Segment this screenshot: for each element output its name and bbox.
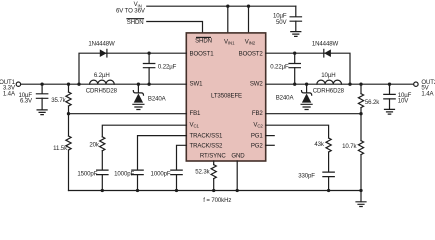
wire OUT1 to SW1 bbox=[21, 83, 187, 85]
svg-text:B240A: B240A bbox=[276, 95, 295, 102]
junction FB1 node bbox=[67, 112, 70, 115]
capacitor C5 1000pF bbox=[114, 170, 143, 190]
svg-text:0.22µF: 0.22µF bbox=[270, 64, 289, 71]
resistor R3 20k bbox=[89, 137, 105, 170]
junction rail right end bbox=[359, 189, 362, 192]
svg-text:B240A: B240A bbox=[148, 95, 167, 102]
pin VC1 bbox=[190, 121, 200, 128]
op-amp U1 LT3508EFE body bbox=[186, 33, 265, 161]
svg-text:52.3k: 52.3k bbox=[195, 169, 210, 176]
wire TRACK/SS2 bbox=[177, 145, 187, 169]
wire TRACK/SS1 bbox=[138, 136, 187, 170]
junction C3 top bbox=[147, 52, 150, 55]
svg-text:6.3V: 6.3V bbox=[20, 97, 33, 104]
pin SW1 bbox=[190, 81, 204, 88]
pin FB1 bbox=[190, 110, 202, 117]
svg-text:FB2: FB2 bbox=[252, 110, 264, 117]
svg-text:SHDN: SHDN bbox=[127, 19, 144, 26]
capacitor C3 0.22uF boost1 bbox=[143, 53, 176, 84]
svg-text:TRACK/SS2: TRACK/SS2 bbox=[190, 142, 224, 149]
wire VIN2 pin bbox=[248, 6, 250, 33]
pin BOOST1 bbox=[190, 50, 215, 57]
capacitor 10uF 50V input bbox=[273, 6, 302, 31]
svg-text:11.5k: 11.5k bbox=[53, 145, 68, 152]
pin GND bbox=[231, 152, 245, 159]
junction C2 bbox=[388, 83, 391, 86]
ground rail symbol bbox=[356, 191, 366, 207]
node SHDN label bbox=[127, 19, 144, 26]
wire GND pin bbox=[236, 161, 238, 191]
svg-text:330pF: 330pF bbox=[298, 173, 315, 180]
wire ground rail bbox=[69, 190, 362, 192]
diode D3 B240A catch left bbox=[133, 84, 166, 102]
svg-text:BOOST2: BOOST2 bbox=[239, 50, 264, 57]
svg-text:f = 700kHz: f = 700kHz bbox=[203, 197, 231, 204]
svg-text:SW2: SW2 bbox=[250, 81, 264, 88]
capacitor C1 10uF 6.3V bbox=[18, 84, 47, 109]
svg-text:1.4A: 1.4A bbox=[421, 91, 434, 98]
resistor R2 11.5k bbox=[53, 114, 71, 191]
resistor R4 52.3k RT bbox=[195, 161, 216, 191]
svg-text:6V TO 36V: 6V TO 36V bbox=[116, 7, 146, 14]
junction rail RT bbox=[212, 189, 215, 192]
resistor R6 10.7k bbox=[342, 114, 364, 191]
ground D3 bbox=[133, 104, 144, 109]
wire BOOST2 corner bbox=[266, 53, 350, 84]
wire VIN1 pin bbox=[227, 6, 229, 33]
junction rail 1500pF bbox=[101, 189, 104, 192]
svg-text:10V: 10V bbox=[398, 98, 410, 105]
svg-text:PG2: PG2 bbox=[251, 142, 264, 149]
pin SHDN bbox=[195, 37, 212, 44]
node VIN label bbox=[116, 1, 146, 14]
inductor L1 6.2uH bbox=[86, 72, 118, 95]
label f=700kHz bbox=[203, 197, 231, 204]
svg-text:SW1: SW1 bbox=[190, 81, 204, 88]
pin PG2 bbox=[251, 142, 264, 149]
svg-text:20k: 20k bbox=[89, 142, 100, 149]
svg-text:50V: 50V bbox=[276, 19, 288, 26]
ground input cap bbox=[291, 32, 301, 37]
wire VC2 bbox=[266, 125, 329, 138]
svg-text:CDRH6D28: CDRH6D28 bbox=[313, 88, 345, 95]
label LT3508EFE bbox=[211, 92, 242, 99]
svg-text:FB1: FB1 bbox=[190, 110, 202, 117]
junction boost2 corner bbox=[348, 83, 351, 86]
wire BOOST1 corner bbox=[79, 53, 186, 84]
junction D4 bbox=[305, 83, 308, 86]
pin FB2 bbox=[252, 110, 264, 117]
resistor R1 35.7k bbox=[51, 84, 71, 114]
capacitor C8 0.22uF boost2 bbox=[270, 53, 300, 84]
pin VIN1 bbox=[224, 38, 235, 45]
junction rail GND bbox=[236, 189, 239, 192]
junction rail 1000pF a bbox=[136, 189, 139, 192]
svg-text:43k: 43k bbox=[314, 141, 325, 148]
wire SHDN bbox=[147, 22, 203, 34]
svg-text:LT3508EFE: LT3508EFE bbox=[211, 92, 242, 99]
wire FB2 bbox=[266, 113, 361, 115]
svg-text:1000pF: 1000pF bbox=[114, 171, 134, 178]
svg-text:GND: GND bbox=[231, 152, 245, 159]
svg-text:0.22µF: 0.22µF bbox=[158, 64, 177, 71]
junction C1 bbox=[40, 83, 43, 86]
svg-text:10µH: 10µH bbox=[321, 72, 335, 79]
svg-text:6.2µH: 6.2µH bbox=[94, 72, 110, 79]
junction VIN1 bbox=[226, 5, 229, 8]
junction rail 330pF bbox=[327, 189, 330, 192]
junction VIN2 bbox=[247, 5, 250, 8]
junction R1 top bbox=[67, 83, 70, 86]
pin VIN2 bbox=[245, 38, 256, 45]
svg-text:10.7k: 10.7k bbox=[342, 143, 357, 150]
svg-text:1500pF: 1500pF bbox=[77, 171, 97, 178]
diode D2 1N4448W bbox=[312, 40, 339, 57]
pin PG1 bbox=[251, 133, 264, 140]
node OUT1 terminal bbox=[0, 79, 21, 98]
resistor R5 56.2k bbox=[358, 84, 380, 114]
wire PG2 stub bbox=[266, 144, 275, 146]
junction C8 bottom bbox=[293, 83, 296, 86]
diode D4 B240A catch right bbox=[276, 84, 312, 102]
svg-text:RT/SYNC: RT/SYNC bbox=[200, 152, 227, 159]
pin RT/SYNC bbox=[200, 152, 227, 159]
capacitor C9 330pF bbox=[298, 172, 334, 190]
capacitor C4 1500pF bbox=[77, 170, 108, 190]
svg-text:1000pF: 1000pF bbox=[151, 171, 171, 178]
ground D4 bbox=[301, 104, 312, 109]
wire PG1 stub bbox=[266, 135, 275, 137]
capacitor C2 10uF 10V bbox=[384, 84, 412, 109]
junction D3 bbox=[137, 83, 140, 86]
ground C2 bbox=[385, 109, 395, 114]
pin SW2 bbox=[250, 81, 264, 88]
svg-text:1.4A: 1.4A bbox=[3, 91, 16, 98]
svg-text:PG1: PG1 bbox=[251, 133, 264, 140]
svg-text:56.2k: 56.2k bbox=[365, 99, 380, 106]
resistor R7 43k bbox=[314, 138, 331, 172]
wire VC1 bbox=[102, 125, 186, 137]
pin TRACK/SS2 bbox=[190, 142, 224, 149]
pin BOOST2 bbox=[239, 50, 264, 57]
inductor L2 10uH bbox=[313, 72, 345, 95]
junction boost1 corner bbox=[77, 83, 80, 86]
junction C8 top bbox=[293, 52, 296, 55]
svg-text:1N4448W: 1N4448W bbox=[312, 40, 339, 47]
svg-text:1N4448W: 1N4448W bbox=[88, 40, 115, 47]
junction FB2 node bbox=[359, 112, 362, 115]
svg-text:35.7k: 35.7k bbox=[51, 97, 66, 104]
pin VC2 bbox=[253, 121, 263, 128]
svg-text:BOOST1: BOOST1 bbox=[190, 50, 215, 57]
wire VIN rail bbox=[147, 5, 296, 7]
wire FB1 bbox=[69, 113, 187, 115]
junction C3 bottom bbox=[147, 83, 150, 86]
wire SW2 to OUT2 bbox=[266, 83, 414, 85]
junction rail 1000pF b bbox=[175, 189, 178, 192]
pin TRACK/SS1 bbox=[190, 133, 224, 140]
capacitor C6 1000pF bbox=[151, 170, 183, 190]
diode D1 1N4448W bbox=[88, 40, 115, 57]
svg-text:SHDN: SHDN bbox=[195, 38, 212, 45]
svg-text:TRACK/SS1: TRACK/SS1 bbox=[190, 133, 224, 140]
svg-text:CDRH5D28: CDRH5D28 bbox=[86, 88, 118, 95]
ground C1 bbox=[37, 110, 47, 115]
node OUT2 terminal bbox=[414, 79, 435, 98]
junction R5 top bbox=[359, 83, 362, 86]
